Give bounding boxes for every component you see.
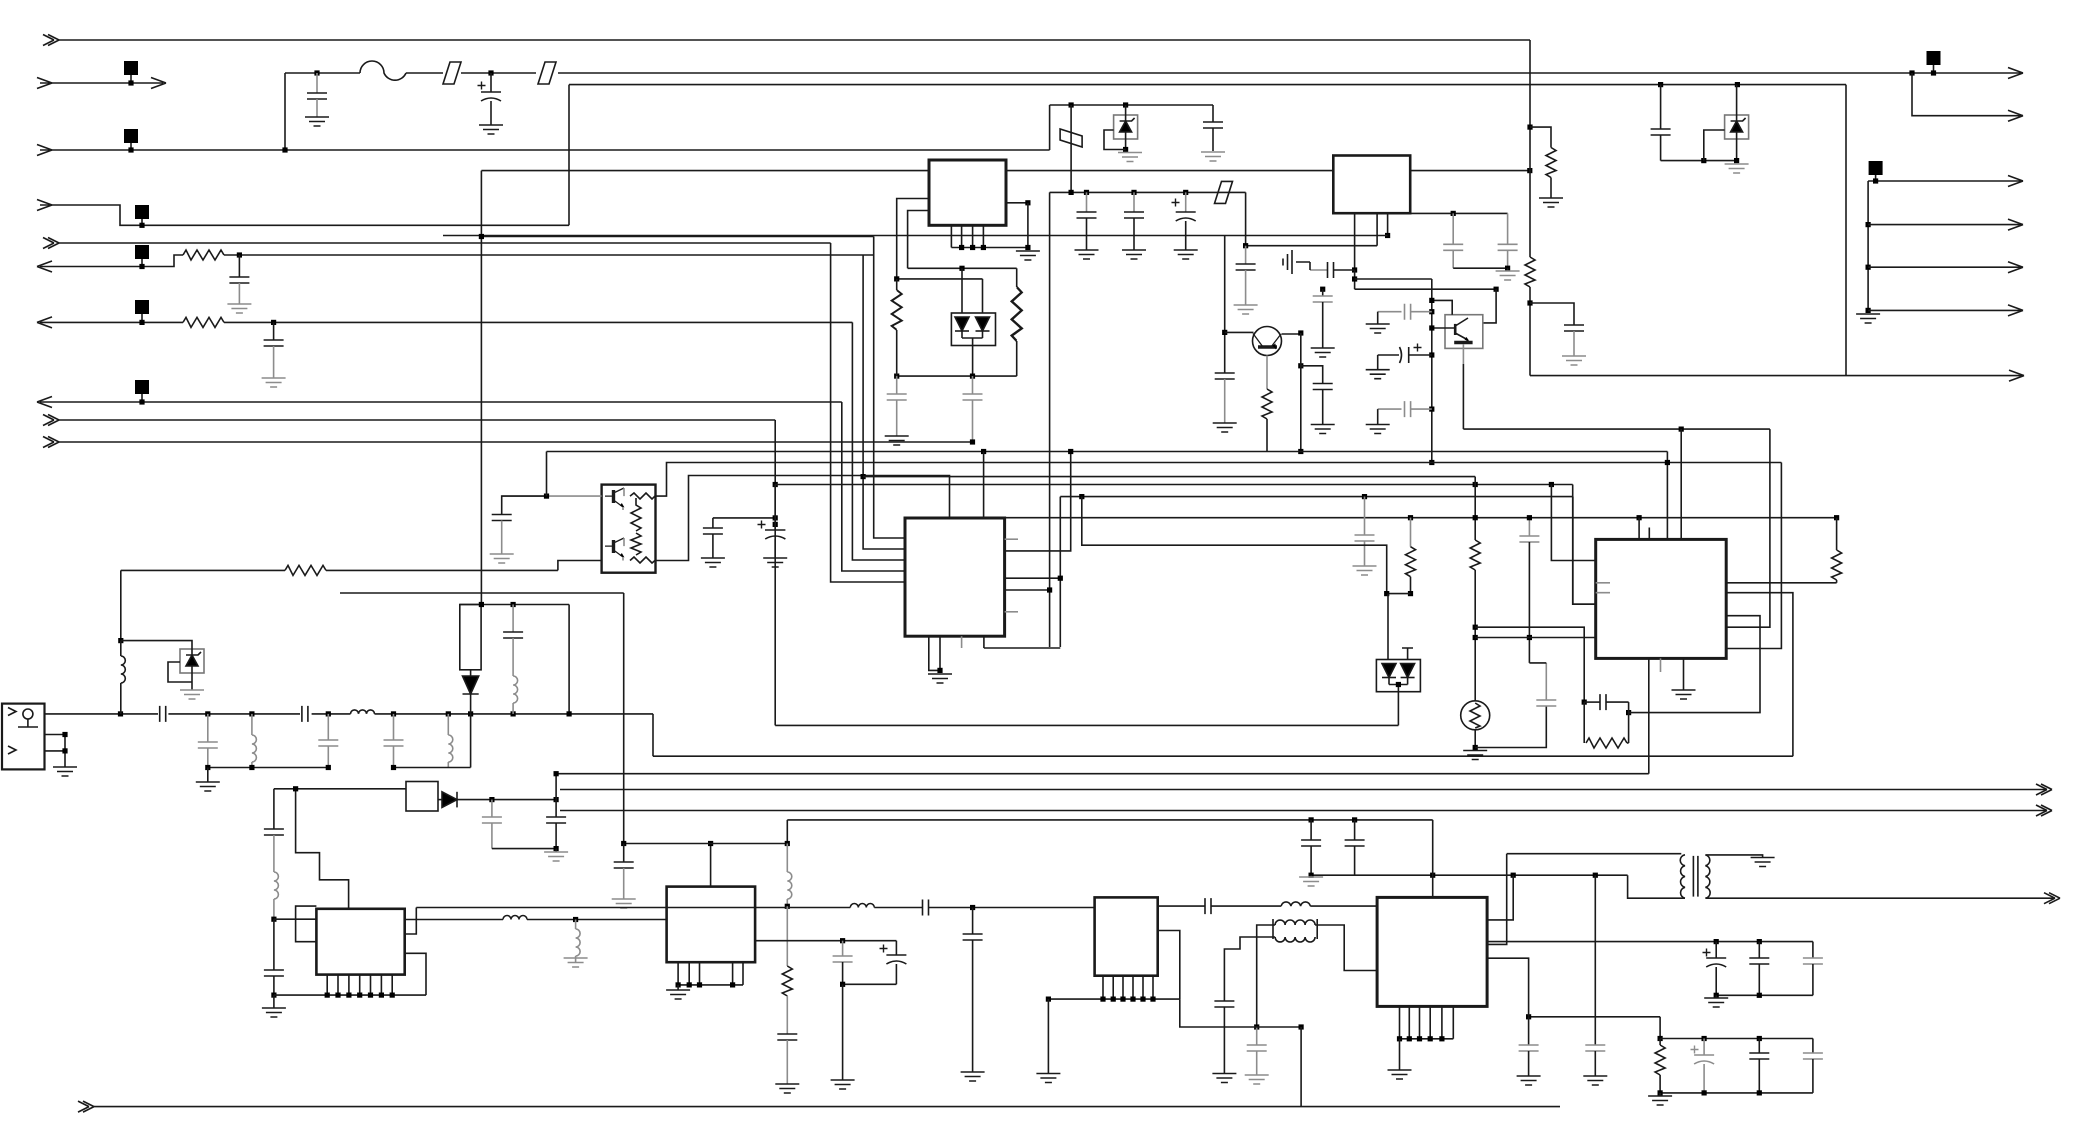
diode D6 (470, 670, 472, 676)
wire vertical x=1060.3 (1059, 497, 1061, 647)
capacitor C7 polarized (1183, 190, 1188, 195)
ground D2 (1118, 153, 1142, 162)
transistor Q1 (1253, 327, 1282, 356)
wire net y=160.6 (1661, 160, 1737, 162)
wire U8 bottom pins (1400, 1006, 1454, 1038)
wire box right pin y=496.1 up (656, 463, 1782, 497)
wire T1 row2 right (1315, 925, 1377, 971)
wire net y=843.5 (624, 843, 788, 845)
wire U2 bottom pin x=1377.1 (1376, 213, 1378, 246)
resistor R26 in box vertical (631, 533, 641, 555)
capacitor C60 (896, 376, 898, 394)
wire U6 left pin (274, 918, 317, 920)
wire J2 stub (130, 75, 132, 83)
ground U5 (1672, 690, 1696, 699)
wire U5 top stub x=1649.3 (1648, 528, 1650, 540)
wire U5 left stubs (1596, 583, 1610, 593)
wire FL1 top line y=604.5 (460, 604, 569, 606)
breaker S1 slash (443, 62, 461, 84)
wire U1 left pin y=210.5 (908, 211, 929, 269)
IC U5 (1596, 539, 1727, 658)
capacitor C41 series (923, 900, 929, 916)
capacitor C38 (712, 518, 714, 528)
ground C58 (1245, 1075, 1269, 1084)
resistor R2 (1016, 268, 1018, 287)
wire D5 left loop (168, 662, 192, 682)
wire net y=476.6 (861, 474, 866, 479)
wire U6 gnd rail (274, 994, 426, 996)
ground U3 (928, 674, 952, 683)
wire U3 right stub y=539.2 (1005, 538, 1018, 540)
wire rail y=984.3 (843, 983, 897, 985)
capacitor C15 (842, 941, 844, 956)
capacitor C23 series (302, 706, 308, 722)
wire net y=243 to bundle (59, 242, 831, 244)
ground C59 (1212, 1074, 1236, 1083)
connector square J6 (135, 245, 149, 259)
wire U5 bottom pin gnd (1683, 658, 1685, 690)
wire U5 left feed x=1572.9 (1573, 497, 1596, 605)
diode D4b (1401, 664, 1415, 678)
resistor R3 top-right (1527, 125, 1532, 130)
capacitor C32 (273, 322, 275, 340)
wire Q2 emitter (1462, 344, 1464, 364)
IC U2 (1333, 156, 1410, 214)
wire U5 top feed x=1681.2 (1679, 427, 1684, 432)
wire staircase from x=273.9 (274, 788, 406, 790)
wire U1 bottom pins (951, 225, 983, 247)
inductor L7 shunt (447, 714, 449, 735)
ground C10 (1562, 356, 1586, 365)
wire net y=484.5 (775, 484, 1572, 486)
wire rail y=274.4 (1453, 267, 1507, 269)
connector square J3 (124, 129, 138, 143)
filter block FL2 (406, 782, 438, 812)
wire net y=420 to bundle (59, 419, 775, 421)
wire U7 right pin y=940.7 (755, 940, 896, 942)
diode D3a (955, 317, 969, 331)
wire T2 secondary bottom (1705, 897, 2055, 899)
ground RT1 (1463, 751, 1487, 760)
wire y=267.2 (1866, 265, 1871, 270)
capacitor C56 chain on y=289.2 (1320, 287, 1325, 292)
connector P4 arrow (40, 205, 569, 225)
wire J4 stub (141, 219, 143, 225)
capacitor C44 (1536, 700, 1556, 706)
capacitor C25 shunt (327, 714, 329, 740)
wire Q1 emitter (1266, 356, 1268, 390)
wire net y=648 (984, 647, 1060, 649)
wire U7 bottom pins (678, 962, 743, 985)
wire U5 top feed x=1667.4 (1666, 452, 1668, 540)
ground rail1 (207, 768, 209, 783)
resistor R22 (183, 317, 224, 327)
wire C44 jog (1528, 518, 1530, 536)
capacitor C28 (264, 829, 284, 835)
wire rail bank1 (1716, 994, 1813, 996)
wire corner x=285 (284, 73, 286, 150)
inductor L13 (787, 872, 792, 899)
wire T1 row3 left (1224, 937, 1275, 1001)
capacitor C45 series (1584, 701, 1600, 703)
ground C14 (555, 849, 557, 852)
ground bank2 (1659, 1093, 1661, 1096)
wire U5 bottom pin x=1648.8 (1648, 658, 1650, 773)
ground C4 (1201, 152, 1225, 161)
wire net y=375.6 arrow (1530, 375, 2024, 377)
capacitor C9 (1507, 213, 1509, 244)
ground C12s (1234, 305, 1258, 314)
ground C20 (1583, 1076, 1607, 1085)
wire branch y=115.7 (1909, 70, 1914, 75)
wire U1 ground rail y=247.5 (951, 247, 1028, 249)
capacitor C27 (512, 605, 514, 633)
wire U6 right pin y=934 loop up (405, 908, 417, 935)
resistor R9 horizontal (1583, 702, 1585, 743)
capacitor C13 (972, 908, 974, 935)
ground C33 (490, 554, 514, 563)
capacitor C49 (1812, 942, 1814, 958)
ground L12 (564, 958, 588, 967)
IC U8 (1377, 897, 1487, 1006)
connector P9 chevron (43, 415, 59, 426)
wire corner x=569 down (568, 85, 570, 226)
ground C6 (1122, 250, 1146, 259)
capacitor C19 (1352, 817, 1357, 822)
transistor Q2 box (1445, 315, 1483, 349)
wire D2 left loop (1104, 130, 1126, 150)
ground bank1 (1715, 995, 1717, 998)
ground C32 (262, 378, 286, 387)
connector square J2 (124, 61, 138, 75)
wire U1 right pin y=202.8 (1006, 202, 1028, 204)
wire net y=236.5 (481, 236, 873, 238)
wire net y=105 (1050, 104, 1213, 106)
wire corner x=1049.6 to y=150 (1049, 105, 1051, 150)
inductor L10 (274, 872, 279, 899)
ground U8 (1399, 1039, 1401, 1070)
wire U2 bottom pin x=1354.6 (1354, 213, 1356, 270)
wire D5 bottom (191, 673, 193, 690)
capacitor C2 polarized (488, 70, 493, 75)
capacitor C11 series (1310, 269, 1328, 271)
wire x=1300.8 down (1300, 333, 1302, 452)
wire U8 top pin (1432, 820, 1434, 898)
capacitor C16 polarized (880, 945, 888, 953)
capacitor C54 series polarized (1414, 344, 1422, 352)
wire U5 right pin y=582.8 resistor (1726, 582, 1836, 584)
wire D5 top feed (121, 641, 192, 649)
wire RT1 to C12 (1475, 706, 1546, 748)
connector P18 chevron out (2036, 784, 2052, 795)
ground C31 (227, 304, 251, 313)
ground bus J11 (1856, 314, 1880, 323)
wire net y=941.6 (1487, 941, 1813, 943)
wire U5 top pin x=1639.1 (1638, 518, 1640, 540)
wire D4 feed (1387, 594, 1389, 660)
ground T2 (1751, 858, 1775, 867)
connector P21 chevron (78, 1101, 94, 1112)
wire corner x=1245.6 (1245, 192, 1247, 245)
wire U8 right pin y=919.9 (1487, 875, 1513, 920)
wire net y=442 long (59, 441, 973, 443)
wire net y=279 (1355, 278, 1432, 280)
wire net VIN y=73 (285, 72, 2023, 74)
wire T1 row1 right to U8 (1310, 905, 1377, 907)
wire C45 right leg (1628, 702, 1630, 743)
wire U3 right pin y=550.9 (1005, 452, 1071, 551)
zener D5 (180, 649, 204, 673)
wire x=787.3 resistor chain (786, 906, 788, 966)
inductor L8 vertical at x=120.8 (120, 570, 122, 640)
resistor R27 (896, 279, 898, 290)
capacitor C57 chain from Q1 collector net (1298, 363, 1303, 368)
wire U3 bottom stub (961, 636, 963, 648)
wire U6 right pin y=919.5 (405, 919, 503, 921)
wire Q1 base y=332.4 (1225, 331, 1254, 333)
resistor R10 (1832, 550, 1842, 580)
IC U7 (667, 887, 756, 963)
resistor R5 (1262, 389, 1272, 419)
capacitor C14a (491, 800, 493, 817)
capacitor C52 (1812, 1039, 1814, 1054)
wire U5 right pin y=648.5 (1726, 463, 1781, 649)
capacitor C24 shunt (207, 714, 209, 742)
wire corner x=1846 down (1845, 85, 1847, 376)
ground C60 (885, 436, 909, 445)
wire D4b top stub (1402, 648, 1413, 660)
capacitor C51 (1758, 1039, 1760, 1054)
ground C43 (1353, 566, 1377, 575)
inductor L11 series (503, 916, 527, 920)
antenna J12 (2, 704, 45, 770)
wire U5 left feed x=1572.7 (1573, 485, 1596, 605)
resistor R7 (1408, 515, 1413, 520)
wire bundle v873.7 net236 (874, 237, 905, 539)
wire antenna main y=713.9 (45, 713, 159, 715)
resistor R24 in box (630, 557, 655, 563)
capacitor C31 (238, 255, 240, 277)
ground C38 (701, 558, 725, 567)
wire vertical x=1530 (1529, 40, 1531, 257)
wire net y=1027 (1180, 999, 1301, 1027)
wire bundle v841.8 net402 (842, 402, 905, 571)
capacitor C3 (1658, 82, 1663, 87)
wire x=273.9 lower (273, 919, 275, 970)
wire J3 stub (130, 143, 132, 150)
wire v623.7 (623, 593, 625, 844)
ground C21 (1517, 1076, 1541, 1085)
wire net y=637.5 (1475, 637, 1596, 639)
capacitor C5 (1084, 190, 1089, 195)
wire U5 right pin y=592.7 (1726, 593, 1793, 757)
wire net y=627.2 (1475, 627, 1584, 702)
wire net y=84.6 (569, 84, 1846, 86)
wire rail1 y=767.5 (208, 767, 328, 769)
wire net y=725.4 (775, 724, 1398, 726)
wire bundle v830.6 net243 (831, 243, 905, 582)
wire U1 left pin y=198.5 (897, 199, 929, 279)
wire net y=192.4 (1050, 191, 1246, 193)
wire U8a right pin y=930.5 (1158, 931, 1180, 1000)
zener D1 (1725, 115, 1749, 139)
ground C17 (612, 899, 636, 908)
ground C42 (775, 1084, 799, 1093)
ground antenna (53, 767, 77, 776)
wire bundle v852.4 net322 (852, 322, 905, 560)
wire U1 left pin y=170.6 from corner (481, 170, 929, 172)
wire U3 bottom pin x=983.9 (983, 636, 985, 648)
wire net y=593.6 (1387, 593, 1411, 595)
transistor Q3a (605, 488, 625, 508)
wire RT1 bottom (1474, 730, 1476, 748)
wire link y=517.9 (713, 517, 775, 519)
ground C13 (961, 1072, 985, 1081)
wire U6 bottom pins (327, 975, 392, 996)
resistor R25 in box vertical (631, 498, 641, 531)
wire x=1301.1 drop (1299, 1024, 1304, 1029)
resistor R12 (1470, 540, 1480, 570)
ground U7 (677, 985, 679, 990)
wire U5 bottom stub (1660, 658, 1662, 672)
breaker S2 slash (538, 62, 556, 84)
resistor R11 (1655, 1045, 1665, 1075)
connector P15 arrow out (2008, 262, 2023, 273)
wire net y=906.3 main IF line (416, 907, 850, 909)
wire U5 right pin y=627.2 (1726, 429, 1770, 627)
capacitor C55 series (1378, 408, 1402, 410)
wire T1 row2 left (1257, 925, 1275, 1027)
connector P13 arrow out (2008, 176, 2023, 187)
wire net y=429.1 emitter line (1463, 428, 1770, 430)
wire D4 bottom (1389, 685, 1408, 692)
wire U6 right pin loop (405, 953, 426, 995)
wire net y=570.4 (121, 569, 285, 571)
wire net y=255 to bundle (224, 254, 874, 256)
wire U5 feed x=1551.4 (1551, 485, 1595, 561)
ground C1 (305, 117, 329, 126)
capacitor C13b (1215, 373, 1235, 379)
wire net y=593 (340, 592, 624, 594)
wire U3 right pin y=578.2 (1005, 577, 1061, 579)
capacitor C17 (623, 844, 625, 863)
capacitor C42 (777, 1034, 797, 1040)
capacitor C6 (1131, 190, 1136, 195)
connector P1 chevron (43, 35, 59, 46)
inductor L14 series (850, 904, 874, 908)
wire T2 secondary top to gnd (1705, 855, 1762, 858)
wire D3 bottom (962, 338, 983, 376)
wire U8a bottom pins (1103, 976, 1153, 999)
wire x=1364.5 branch (1362, 494, 1367, 499)
ground D5 (180, 690, 204, 699)
resistor R4 inline (1525, 257, 1535, 287)
connector P6 arrow (in) (40, 255, 183, 267)
wire net y=1016.8 (1529, 1016, 1661, 1018)
IC U3 (905, 518, 1005, 636)
wire long vertical x=1049.6 (1049, 192, 1051, 647)
connector square J11 (1869, 161, 1883, 175)
wire net y=810.5 chevron (560, 810, 2047, 812)
wire antenna aux pins (45, 735, 66, 768)
capacitor C47 polarized (1703, 949, 1711, 957)
wire bundle v775.2 net420 (774, 420, 776, 725)
ground U1 (1016, 251, 1040, 260)
wire bundle v863.1 net255 (863, 255, 905, 549)
wire net y=848.6 (492, 848, 556, 850)
wire x=556.1 up to net 773.7 (555, 774, 557, 800)
connector P8 arrow (in) (40, 401, 842, 403)
diode D7 (438, 799, 442, 801)
capacitor C12s (1245, 246, 1247, 264)
wire U3 right pin y=590 (1005, 589, 1050, 591)
wire net y=773.7 (556, 773, 1649, 775)
capacitor C50 polarized (1691, 1046, 1699, 1054)
wire U3 right stub y=611.8 (1005, 611, 1018, 613)
wire net y=819.9 (787, 819, 1432, 821)
dual diode D3 box (951, 313, 995, 346)
IC U6 (316, 909, 404, 975)
wire net VBUS y=40 (59, 39, 1530, 41)
ground D1 (1725, 164, 1749, 173)
capacitor C43 (1355, 535, 1375, 541)
wire x=546.5 up to L7 (546, 452, 548, 497)
connector P17 arrow out (2009, 370, 2024, 381)
ground C5 (1075, 250, 1099, 259)
connector square J4 (135, 205, 149, 219)
wire U2 right-bottom y=213.4 (1410, 212, 1507, 214)
connector P11 arrow out (2008, 68, 2023, 79)
filter block FL1 (460, 605, 481, 670)
connector square J7 (135, 300, 149, 314)
wire U8a rail (1048, 998, 1179, 1000)
connector P10 chevron (43, 437, 59, 448)
ground C2 (479, 125, 503, 134)
capacitor C26 shunt (393, 714, 395, 740)
connector square J8 (135, 380, 149, 394)
connector P20 chevron out (2044, 893, 2060, 904)
ground x=273.9 (273, 995, 275, 1008)
wire box left pin y=560.5 (558, 561, 602, 571)
capacitor C29 (264, 970, 284, 976)
wire T2 bottom lead (1628, 875, 1685, 898)
wire RT1 top (1474, 477, 1476, 701)
wire net y=322.4 to bundle (224, 321, 852, 323)
wire net y=289.2 (1355, 288, 1497, 290)
wire net y=712.6 (1629, 616, 1760, 713)
wire rail bank2 bottom (1660, 1092, 1813, 1094)
ground C11 left (1296, 262, 1310, 270)
inductor L9 (513, 676, 518, 703)
wire U2 right pin y=170.6 (1410, 170, 1530, 172)
wire net y=517.7 (1005, 517, 1837, 519)
capacitor C18 (1309, 817, 1314, 822)
wire U3 bottom pins gnd pair (929, 636, 940, 670)
wire U3 top pin x=983.6 (981, 449, 986, 454)
wire Q2 collector top (1432, 300, 1452, 314)
inductor L5 series (351, 710, 375, 714)
connector P19 chevron out (2036, 805, 2052, 816)
wire x=273.9 chain top (273, 789, 275, 829)
capacitor C8 (1452, 213, 1454, 244)
wire box left pin y=496.1 (502, 495, 602, 497)
IC U1 (929, 160, 1006, 225)
ground U8a rail (1036, 1074, 1060, 1083)
connector P3 arrow (40, 149, 1050, 151)
connector P5 chevron (43, 238, 59, 249)
wire net y=545.2 (1079, 494, 1084, 499)
capacitor C10 (1564, 325, 1584, 331)
